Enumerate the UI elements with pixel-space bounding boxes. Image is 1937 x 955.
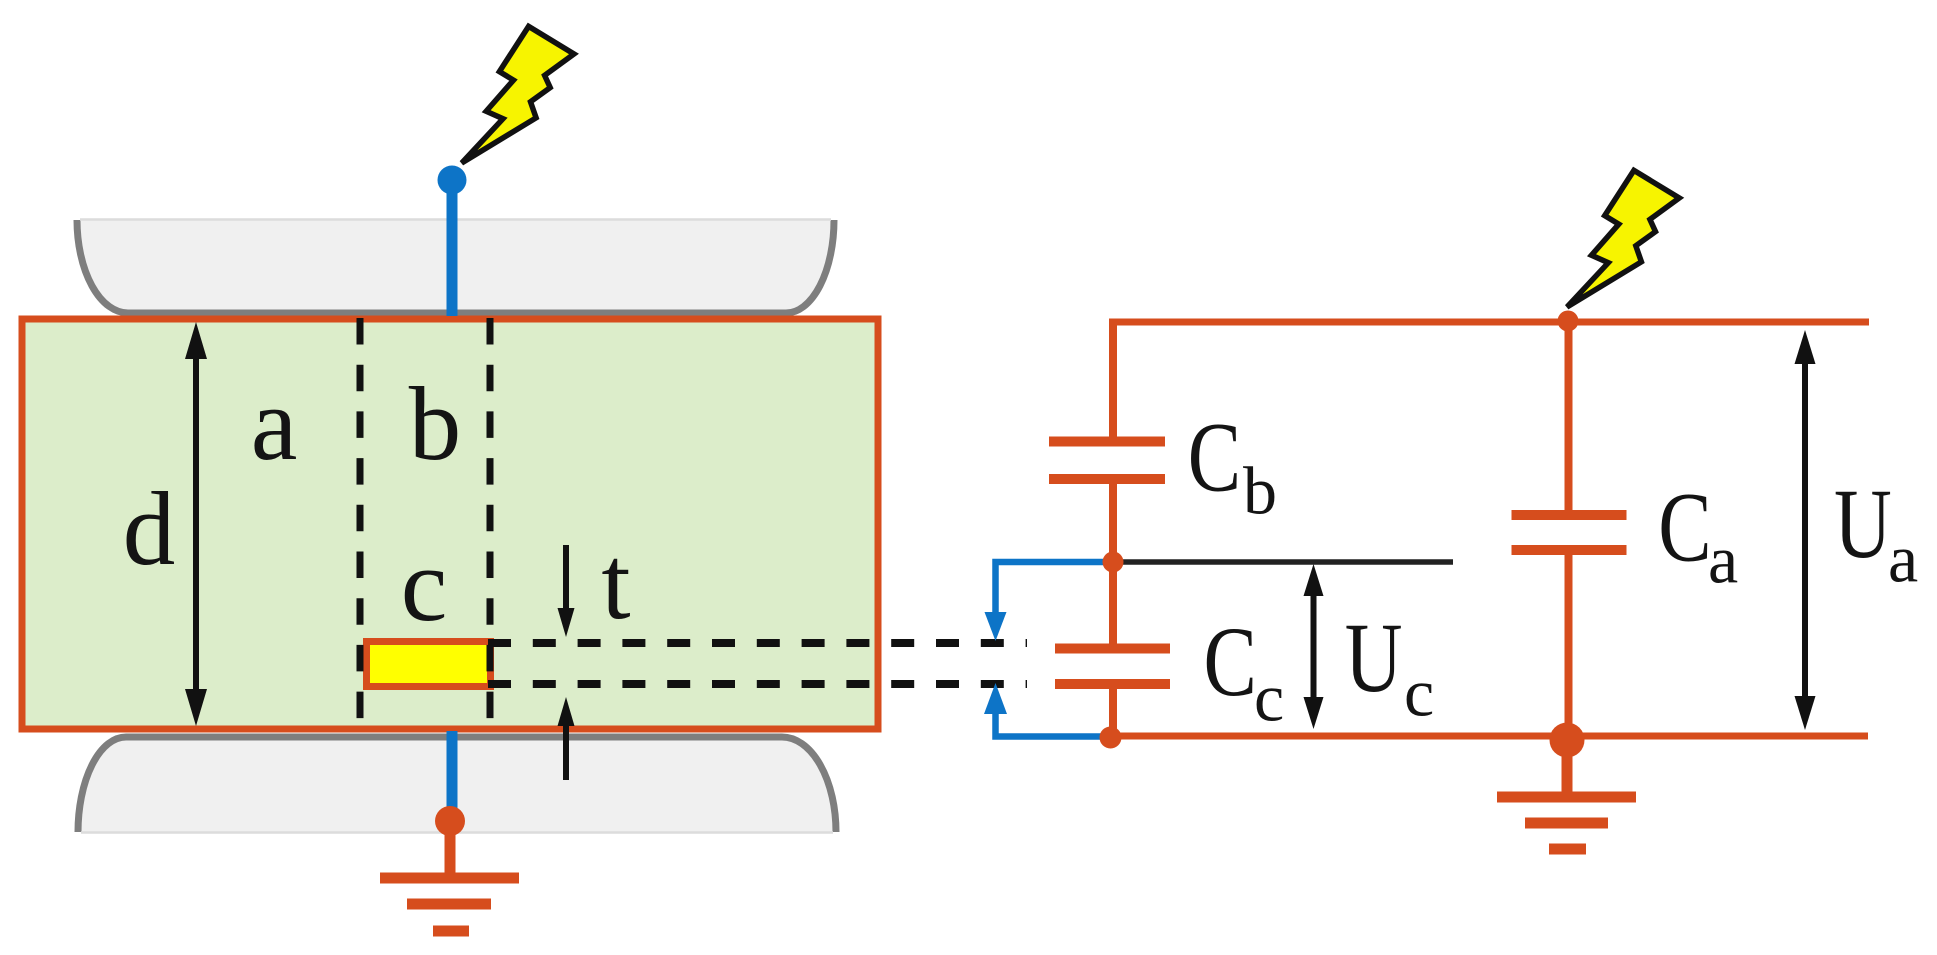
dielectric slab (22, 319, 878, 729)
dimension d (185, 322, 207, 726)
svg-text:U: U (1834, 468, 1892, 580)
capacitor Cc (1055, 649, 1170, 685)
blue bracket bottom (984, 683, 1113, 737)
wire bottom blue (447, 731, 458, 815)
svg-text:d: d (123, 470, 176, 587)
lightning bolt top (462, 26, 574, 163)
bottom electrode (78, 737, 836, 833)
blue bracket top (985, 562, 1114, 641)
node bottom (red dot) (435, 806, 465, 836)
label Ua (1834, 468, 1892, 580)
svg-text:a: a (251, 365, 298, 482)
dimension t lower arrow (558, 697, 575, 780)
void c (cavity) (367, 642, 491, 687)
dashed boundary b|r (487, 318, 494, 727)
wire node to Cc (1109, 562, 1117, 644)
svg-text:C: C (1658, 471, 1711, 583)
wire Cc to bottom rail (1109, 689, 1117, 736)
svg-text:c: c (401, 526, 448, 643)
top electrode (77, 220, 834, 314)
wire Cb to node (1109, 484, 1117, 562)
top rail (1110, 319, 1870, 326)
node top rail (1558, 311, 1579, 332)
capacitor Ca (1512, 515, 1627, 550)
dimension Ua (1795, 330, 1816, 730)
label Uc (1345, 602, 1403, 714)
dimension t upper arrow (558, 545, 575, 637)
svg-text:b: b (409, 365, 462, 482)
node main (big dot) (1550, 723, 1585, 758)
dashed boundary a|b (357, 318, 364, 727)
svg-text:c: c (1254, 660, 1284, 736)
ground right (1497, 740, 1636, 849)
dashed pointer top (488, 639, 1027, 647)
dashed pointer bottom (488, 680, 1027, 688)
Ca branch wire lower (1565, 555, 1573, 736)
Ca branch wire upper (1565, 322, 1573, 510)
dimension Uc (1304, 564, 1324, 729)
node bottom left (1100, 727, 1122, 749)
label Cb (1188, 401, 1241, 513)
left branch wire upper (1109, 319, 1117, 441)
svg-text:C: C (1204, 606, 1257, 718)
bottom rail (1110, 733, 1869, 740)
ground left (380, 821, 519, 931)
label Ca (1658, 471, 1711, 583)
node top (blue dot) (438, 166, 467, 195)
svg-text:a: a (1708, 522, 1738, 598)
wire top blue (447, 180, 458, 316)
svg-text:c: c (1404, 655, 1434, 731)
svg-text:b: b (1243, 453, 1277, 529)
lightning bolt right (1567, 170, 1679, 307)
svg-text:C: C (1188, 401, 1241, 513)
black tap line (1113, 559, 1453, 565)
svg-text:t: t (601, 524, 630, 641)
svg-text:U: U (1345, 602, 1403, 714)
svg-text:a: a (1888, 521, 1918, 597)
label Cc (1204, 606, 1257, 718)
capacitor Cb (1049, 442, 1165, 480)
node Uc top (1103, 552, 1124, 573)
